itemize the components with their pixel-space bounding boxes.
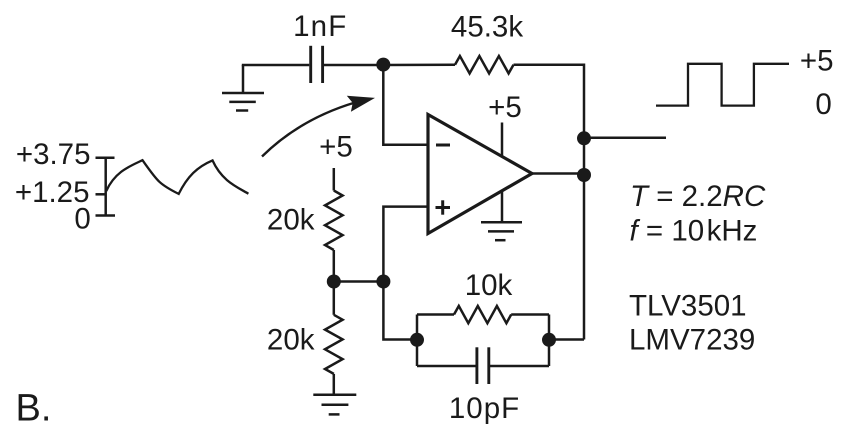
wire R1 to right rail: [514, 63, 585, 66]
svg-text:20k: 20k: [267, 204, 315, 237]
resistor R3 20k lower: [325, 315, 343, 374]
wire C2 to right leg: [490, 365, 549, 368]
sawtooth axis: [96, 158, 116, 217]
svg-text:10pF: 10pF: [449, 392, 520, 425]
wire C1 to node A: [324, 64, 383, 67]
resistor R1 45.3k: [455, 56, 514, 73]
junction dot divider mid: [327, 275, 341, 289]
svg-text:+5: +5: [800, 45, 834, 78]
wire R4 to right leg: [511, 313, 549, 316]
wire top branch to R4: [417, 313, 454, 316]
junction dot feedback left: [410, 333, 424, 347]
svg-text:20k: 20k: [267, 324, 315, 357]
capacitor C2 10pF: [477, 347, 489, 384]
wire bottom branch to C2: [417, 365, 476, 368]
wire right leg of feedback network: [548, 315, 551, 367]
ground (1nF capacitor ground): [222, 65, 264, 111]
svg-text:f = 10 kHz: f = 10 kHz: [630, 215, 758, 248]
wire op-amp V+ pin: [501, 123, 504, 157]
svg-text:0: 0: [815, 88, 831, 121]
svg-text:LMV7239: LMV7239: [629, 324, 755, 357]
arrowhead of annotation arrow: [347, 96, 375, 112]
junction dot output upper: [577, 131, 591, 145]
junction dot feedback right: [542, 333, 556, 347]
plus input symbol: [436, 200, 451, 214]
junction dot output lower: [577, 168, 591, 182]
node A junction dot: [376, 58, 390, 72]
wire op-amp output: [531, 172, 584, 175]
arrow (curved annotation): [262, 103, 355, 157]
svg-text:+3.75: +3.75: [16, 138, 91, 171]
wire divider node to + input rail: [334, 280, 384, 283]
wire node A to R1: [383, 63, 455, 66]
resistor R4 10k: [454, 306, 511, 323]
wire left leg of feedback network: [416, 315, 419, 367]
ground (divider): [313, 395, 356, 415]
wire inverting input: [383, 64, 428, 145]
svg-text:B.: B.: [16, 388, 52, 430]
wire divider node to R3: [333, 282, 336, 315]
svg-text:0: 0: [74, 202, 90, 235]
wire non-inverting input: [383, 207, 428, 340]
svg-text:+5: +5: [319, 131, 353, 164]
svg-text:45.3k: 45.3k: [451, 11, 523, 44]
op-amp U1: [428, 115, 532, 234]
wire ground to C1: [242, 64, 309, 67]
wire op-amp ground pin: [501, 191, 504, 223]
ground (op-amp): [481, 222, 522, 240]
svg-text:10k: 10k: [465, 269, 513, 302]
resistor R2 20k upper: [325, 191, 343, 251]
wire +5 supply to R2: [333, 168, 336, 191]
wire R3 to ground: [333, 374, 336, 395]
wire R2 to divider node: [333, 250, 336, 282]
svg-text:+5: +5: [488, 91, 522, 124]
svg-text:1nF: 1nF: [293, 10, 347, 43]
svg-text:T = 2.2RC: T = 2.2RC: [630, 180, 766, 213]
wire right rail vertical: [583, 64, 586, 340]
wire right node to right rail: [549, 338, 584, 341]
square wave output waveform: [656, 64, 789, 106]
svg-text:TLV3501: TLV3501: [629, 289, 747, 322]
minus input symbol: [436, 144, 450, 147]
wire output to scope: [584, 137, 666, 140]
capacitor C1 1nF: [311, 46, 323, 83]
sawtooth waveform: [106, 160, 248, 194]
junction dot + input rail: [376, 275, 390, 289]
